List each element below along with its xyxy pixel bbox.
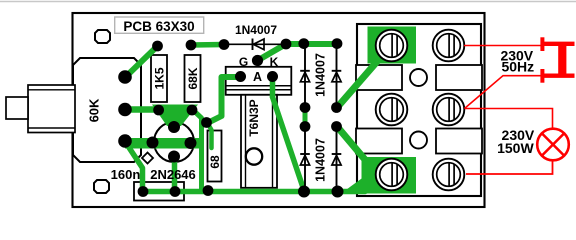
terminal block notch left 2 [356, 129, 402, 154]
resistor pads [152, 41, 163, 52]
wire top bus [286, 41, 337, 47]
wire 68K bottom down [193, 110, 202, 189]
wire diode D2 [304, 44, 306, 107]
terminal block notch right 1 [436, 65, 482, 90]
resistor R3 68 [208, 131, 222, 182]
svg-text:1N4007: 1N4007 [314, 138, 328, 182]
wire diode D3 [336, 44, 338, 107]
svg-text:K: K [270, 55, 279, 69]
screw terminal 4 [433, 94, 465, 126]
svg-text:T6N3P: T6N3P [247, 99, 261, 136]
resistor R1 1K5 [151, 55, 167, 102]
diode D2 1N4007 [300, 70, 310, 72]
triac body [241, 95, 277, 188]
mounting hole bottom-left [94, 180, 109, 193]
screw terminal 5 [376, 159, 408, 191]
svg-text:2N2646: 2N2646 [150, 167, 196, 182]
wire 68K top to bus [191, 42, 224, 48]
svg-text:G: G [239, 55, 248, 69]
wire lamp to screw6 [466, 161, 553, 175]
green pad top-left screw [368, 27, 417, 64]
triac U1 T6N3P tab [226, 67, 292, 95]
PADS [118, 38, 343, 197]
svg-text:A: A [253, 70, 262, 84]
screw terminal 1 [376, 30, 408, 62]
wire screw2 to source [464, 45, 541, 47]
RED external circuit [464, 37, 575, 174]
trace D5 to bottom screw [338, 127, 368, 162]
screw terminal 3 [376, 94, 408, 126]
capacitor C1 160n [134, 182, 184, 201]
wire Q1 bottom to capacitor [172, 157, 178, 189]
triac hole [246, 148, 262, 164]
wire R3 pad down [208, 123, 212, 148]
svg-text:60K: 60K [87, 98, 102, 122]
BLACK WIRES AND DIODES [224, 39, 341, 192]
bottom trace [143, 189, 365, 195]
diode D4 1N4007 [300, 153, 310, 155]
mounting hole top-left [95, 30, 110, 43]
trace trapezoid under resistors [152, 105, 198, 127]
terminal block center hole 1 [410, 69, 427, 86]
node pads on top bus [219, 39, 230, 50]
trace screw to diode D3 [338, 57, 382, 107]
transistor Q1 2N2646 body [154, 122, 194, 162]
terminal block body [357, 24, 481, 196]
wire screw4 to lamp [465, 109, 553, 130]
svg-text:160n: 160n [111, 167, 141, 182]
screw terminal 2 [433, 30, 465, 62]
capacitor pads [138, 186, 149, 197]
wire diode link left column [303, 108, 308, 127]
triac tab pads [235, 71, 246, 82]
wire pot bottom to Q1 left [125, 142, 154, 143]
wire diode D4 [304, 127, 306, 191]
svg-text:1N4007: 1N4007 [235, 23, 277, 37]
svg-text:68K: 68K [186, 67, 200, 89]
svg-text:1N4007: 1N4007 [314, 53, 328, 97]
wire bus to gate pad [258, 44, 287, 61]
diode D5 1N4007 [332, 153, 342, 155]
Q1 emitter diamond marker [142, 153, 153, 164]
wire top (diode D1) [224, 43, 286, 45]
svg-text:150W: 150W [497, 140, 534, 156]
diode D3 1N4007 [332, 70, 342, 72]
trace wedge to bottom screw [341, 157, 391, 194]
svg-text:1K5: 1K5 [152, 67, 166, 89]
wire source to screw4 [465, 76, 542, 109]
svg-text:50Hz: 50Hz [501, 58, 534, 74]
R3 pads [201, 117, 212, 128]
GREEN TRACES [125, 27, 416, 194]
wire pot middle to resistor node [125, 106, 163, 113]
wire pot bottom to capacitor [126, 143, 143, 188]
wire diagonal to bottom trace [273, 97, 304, 189]
potentiometer 60K body [73, 58, 141, 162]
terminal screws [376, 30, 465, 191]
wire pot top to 1K5 top [127, 46, 158, 76]
label box PCB 63X30 [115, 17, 204, 33]
lamp 230V 150W [537, 129, 569, 161]
resistor R2 68K [185, 55, 201, 102]
gate pad [252, 55, 263, 66]
green pad bottom-left screw [362, 157, 417, 194]
terminal block notch right 2 [436, 129, 482, 154]
wire A-right down [270, 77, 276, 97]
wire diode D5 [336, 127, 338, 191]
screw terminal 6 [433, 159, 465, 191]
AC source 230V 50Hz symbol [540, 37, 544, 51]
svg-text:68: 68 [208, 155, 222, 169]
potentiometer bushing [28, 85, 75, 133]
wire A-left to R3 top [208, 77, 241, 123]
terminal block notch left 1 [356, 65, 402, 90]
diode D1 1N4007 [252, 39, 254, 51]
potentiometer shaft [6, 97, 28, 119]
pot pads [118, 70, 132, 84]
trace band through Q1 [125, 138, 204, 149]
diode column pads [300, 102, 311, 113]
top grey border line [0, 1, 576, 3]
terminal block center hole 2 [410, 132, 427, 149]
svg-text:PCB 63X30: PCB 63X30 [123, 19, 194, 34]
PCB board outline [73, 13, 485, 207]
Q1 pads [168, 121, 180, 133]
